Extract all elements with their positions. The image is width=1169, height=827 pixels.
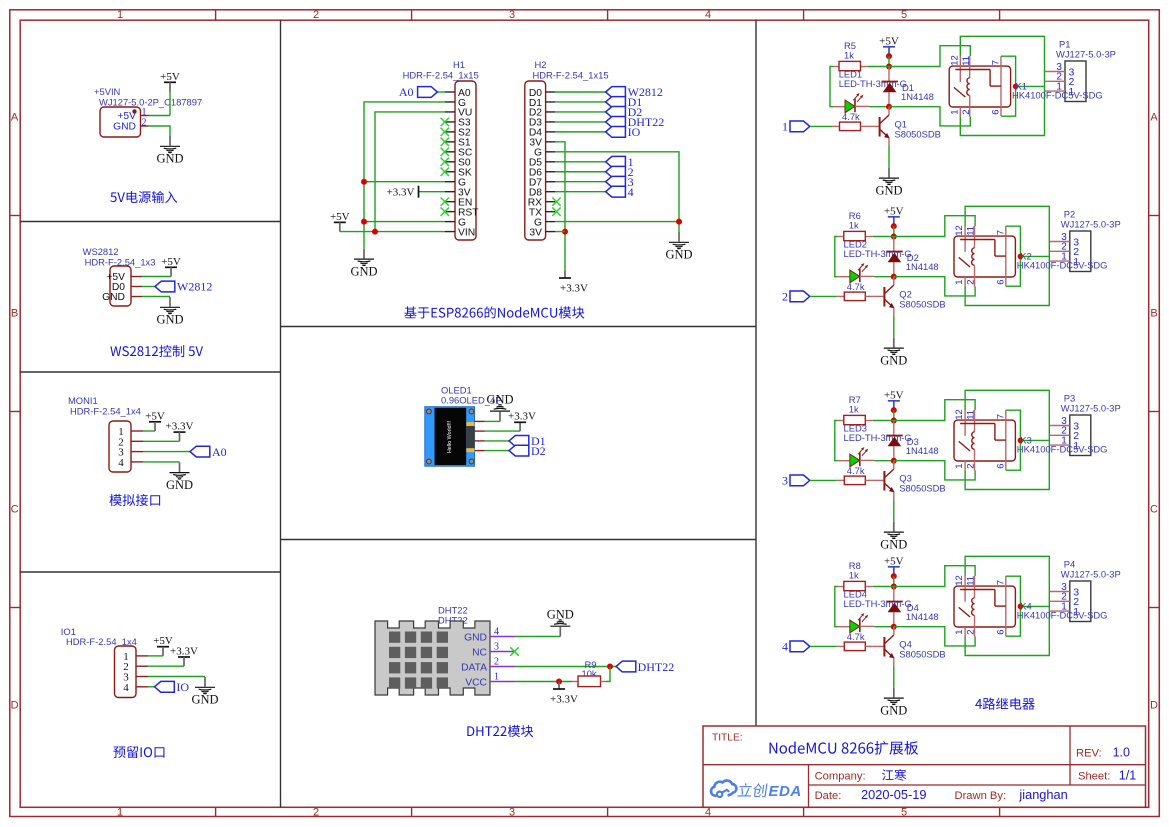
svg-text:Company:: Company: — [815, 771, 866, 783]
power +5V (relay 1) — [879, 35, 899, 56]
junction collector node — [891, 624, 897, 630]
net flag DHT22 — [606, 115, 665, 129]
ground GND (dht) — [547, 608, 574, 637]
junction relay common — [1018, 604, 1024, 610]
svg-text:1k: 1k — [849, 220, 859, 231]
svg-text:Date:: Date: — [815, 790, 842, 802]
relay pin numbers — [954, 575, 1006, 635]
wire pin2 to +3.3V — [143, 440, 180, 442]
wire +5V rail to relay coil — [889, 46, 970, 67]
pin 1 of +5VIN — [141, 107, 149, 118]
svg-text:7: 7 — [996, 580, 1007, 585]
section divider lines — [20, 20, 757, 808]
Sheet field — [1078, 769, 1136, 783]
svg-text:D: D — [1150, 700, 1158, 712]
wire D0 to flag — [555, 91, 606, 93]
svg-text:Hello World!!!: Hello World!!! — [447, 420, 453, 453]
svg-text:+3.3V: +3.3V — [560, 283, 588, 295]
wire GND pin — [142, 296, 170, 298]
diode D2 1N4148 — [886, 237, 903, 277]
ground GND (relay 4) — [880, 688, 907, 718]
title block TITLE — [712, 733, 743, 744]
caption NodeMCU module — [404, 306, 584, 318]
svg-text:WJ127-5.0-3P: WJ127-5.0-3P — [1061, 569, 1121, 580]
wire G pin14 to gnd rail — [364, 221, 445, 223]
wire input to base resistor — [810, 645, 837, 647]
svg-text:11: 11 — [961, 56, 972, 66]
junction G pin14 — [361, 219, 367, 225]
svg-text:+5V: +5V — [884, 389, 904, 401]
input net flag 4 — [782, 640, 810, 654]
svg-text:2: 2 — [313, 9, 319, 21]
relay K3 labels — [1017, 435, 1108, 455]
diode D4 labels — [906, 602, 939, 622]
wire +5V to rail — [888, 56, 890, 66]
transistor Q4 labels — [899, 639, 945, 660]
net flag IO — [606, 125, 641, 139]
svg-text:MONI1: MONI1 — [68, 395, 98, 406]
resistor R7 labels — [849, 394, 861, 415]
net flag A0 (H1) — [399, 85, 438, 99]
svg-text:HK4100F-DC5V-SDG: HK4100F-DC5V-SDG — [1017, 443, 1108, 454]
svg-text:GND: GND — [547, 608, 574, 622]
wire +5V to rail — [893, 410, 895, 420]
svg-text:DATA: DATA — [461, 662, 487, 673]
connector P2 labels — [1061, 209, 1121, 230]
relay pin numbers — [949, 55, 1001, 115]
wire D2 to flag — [555, 111, 606, 113]
wire 3V pin11 to +3.3V — [419, 191, 446, 193]
svg-text:Sheet:: Sheet: — [1078, 771, 1110, 783]
transistor Q1 S8050SDB — [880, 107, 890, 146]
power +5V (moni) — [145, 410, 165, 431]
power +3.3V (H1) — [387, 186, 419, 199]
svg-text:4: 4 — [705, 807, 711, 819]
wire LED to collector node — [874, 276, 894, 278]
transistor Q3 S8050SDB — [884, 461, 894, 500]
connector P1 WJ127-5.0-3P — [1045, 61, 1086, 102]
connector WS2812 labels — [83, 246, 156, 268]
wire pin2 to GND — [149, 126, 171, 136]
connector +5VIN WJ127-5.0-2P — [100, 107, 141, 137]
wire +5V rail to relay coil — [894, 400, 975, 421]
relay K2 labels — [1017, 251, 1108, 271]
svg-text:C: C — [11, 504, 19, 516]
svg-text:1: 1 — [782, 120, 788, 134]
svg-text:11: 11 — [966, 410, 977, 420]
svg-text:A: A — [1150, 112, 1158, 124]
svg-text:A0: A0 — [212, 445, 227, 459]
svg-text:HDR-F-2.54_1x4: HDR-F-2.54_1x4 — [70, 406, 141, 417]
no-connect S2 — [441, 128, 449, 136]
wire relay contact pins — [1006, 576, 1021, 636]
input net flag 3 — [782, 474, 810, 488]
net flag 4 — [606, 185, 634, 199]
svg-text:A: A — [11, 112, 19, 124]
svg-text:VIN: VIN — [458, 227, 475, 238]
connector +5VIN labels — [94, 86, 202, 108]
power +5V (relay 3) — [884, 389, 904, 410]
no-connect NC — [510, 647, 518, 655]
wire VIN pin15 to +5V port — [340, 231, 445, 233]
net flag 3 — [606, 175, 634, 189]
wire relay NC loop — [965, 206, 1049, 305]
connector P2 WJ127-5.0-3P — [1050, 231, 1091, 272]
resistor R6 labels — [849, 210, 861, 231]
wire G pin2 to gnd rail — [364, 102, 445, 249]
title text — [770, 741, 919, 755]
wire +5V to rail — [893, 576, 895, 586]
wire input to base resistor — [810, 295, 837, 297]
svg-text:GND: GND — [665, 248, 692, 262]
resistor R8 labels — [849, 560, 861, 581]
svg-text:3: 3 — [509, 807, 515, 819]
svg-text:11: 11 — [966, 576, 977, 586]
svg-text:S8050SDB: S8050SDB — [899, 648, 945, 659]
wire DHT VCC to R9 — [515, 681, 572, 683]
wire relay NC loop — [965, 556, 1049, 655]
svg-text:IO: IO — [628, 125, 641, 139]
module OLED1 0.96OLED_4P — [425, 407, 475, 467]
svg-text:3V: 3V — [529, 227, 542, 238]
wire R left to LED — [835, 237, 838, 277]
power +3.3V (io1) — [170, 646, 198, 667]
svg-text:GND: GND — [486, 393, 513, 407]
company name — [882, 769, 906, 781]
net flag 1 — [606, 155, 634, 169]
diode D1 1N4148 — [882, 67, 899, 107]
net flag D1 — [606, 95, 643, 109]
svg-text:HK4100F-DC5V-SDG: HK4100F-DC5V-SDG — [1012, 89, 1103, 100]
connector P3 WJ127-5.0-3P — [1050, 415, 1091, 456]
LED3 — [838, 447, 875, 467]
svg-text:S8050SDB: S8050SDB — [899, 298, 945, 309]
power +5V (io1) — [153, 635, 173, 656]
svg-text:1: 1 — [117, 9, 123, 21]
wire DHT DATA — [515, 666, 616, 668]
svg-text:C: C — [1150, 504, 1158, 516]
relay K1 HK4100F — [949, 56, 1010, 117]
connector IO1 labels — [61, 626, 137, 647]
wire R9 to DATA net — [606, 667, 610, 682]
net flag 2 — [606, 165, 634, 179]
net flag DHT22 — [616, 660, 674, 674]
svg-text:GND: GND — [113, 122, 136, 133]
wire LED to collector node — [870, 106, 890, 108]
svg-text:+5V: +5V — [884, 205, 904, 217]
wire D8 to flag — [555, 191, 606, 193]
svg-text:4: 4 — [705, 9, 711, 21]
no-connect S0 — [441, 158, 449, 166]
junction relay common — [1018, 438, 1024, 444]
diode D1 labels — [901, 82, 934, 102]
net flag D2 — [606, 105, 643, 119]
svg-text:+3.3V: +3.3V — [170, 646, 198, 658]
LED3 labels — [844, 423, 912, 444]
svg-text:GND: GND — [464, 632, 487, 643]
wire G pin10 to gnd rail — [364, 181, 445, 183]
svg-text:GND: GND — [880, 353, 907, 367]
svg-text:2: 2 — [782, 290, 788, 304]
ground GND (H2 right) — [665, 232, 692, 262]
svg-text:GND: GND — [350, 264, 377, 278]
module DHT22 labels — [438, 605, 468, 626]
wire common to P4 — [1020, 605, 1049, 607]
svg-text:GND: GND — [156, 313, 183, 327]
ground GND (input section) — [156, 136, 183, 166]
svg-text:HK4100F-DC5V-SDG: HK4100F-DC5V-SDG — [1017, 609, 1108, 620]
ground GND (H1 rail) — [350, 249, 377, 279]
wire 3V pin15 — [555, 231, 565, 233]
resistor R9 labels — [582, 659, 597, 679]
connector WS2812 HDR-F-2.54_1x3 — [102, 266, 131, 306]
svg-text:1: 1 — [494, 672, 499, 683]
wire pin1 to +5V — [143, 430, 155, 432]
power +5V (ws2812) — [161, 256, 181, 277]
svg-text:5: 5 — [901, 9, 907, 21]
ground GND (relay 3) — [880, 522, 907, 552]
svg-text:GND: GND — [875, 183, 902, 197]
caption DHT22 module — [467, 725, 533, 737]
relay K4 labels — [1017, 601, 1108, 621]
ground GND (relay 2) — [880, 338, 907, 368]
wire R left to LED — [830, 67, 833, 107]
svg-text:HDR-F-2.54_1x15: HDR-F-2.54_1x15 — [403, 69, 479, 80]
transistor Q1 labels — [895, 119, 941, 140]
base resistor 4.7k — [837, 642, 873, 651]
no-connect SK — [441, 168, 449, 176]
wire common to P2 — [1020, 255, 1049, 257]
svg-text:3: 3 — [782, 474, 788, 488]
connector P3 labels — [1061, 393, 1121, 414]
connector P4 WJ127-5.0-3P — [1050, 581, 1091, 622]
connector MONI1 labels — [68, 395, 141, 417]
svg-text:2: 2 — [313, 807, 319, 819]
svg-text:A0: A0 — [399, 85, 414, 99]
power +5V (input section) — [160, 71, 180, 92]
relay pin numbers — [954, 409, 1006, 469]
ground GND (ws2812) — [156, 297, 183, 327]
wire common to P3 — [1020, 439, 1049, 441]
wire relay contact pins — [1006, 410, 1021, 470]
LED2 labels — [844, 239, 912, 260]
wire base resistor to base — [868, 125, 880, 127]
svg-text:2: 2 — [966, 630, 977, 635]
svg-text:4: 4 — [123, 682, 129, 694]
net flag W2812 — [606, 85, 663, 99]
svg-text:HDR-F-2.54_1x15: HDR-F-2.54_1x15 — [533, 69, 609, 80]
net flag D1 (oled) — [509, 434, 546, 448]
net flag A0 — [190, 445, 227, 459]
pin stubs OLED1 — [475, 421, 485, 450]
relay K3 HK4100F — [954, 410, 1015, 471]
wire G pin14 to gnd — [555, 221, 679, 223]
svg-text:+5VIN: +5VIN — [94, 86, 120, 97]
svg-text:1N4148: 1N4148 — [906, 261, 939, 272]
svg-text:1/1: 1/1 — [1119, 769, 1136, 783]
svg-text:4.7k: 4.7k — [847, 465, 865, 476]
svg-text:+5V: +5V — [330, 211, 350, 223]
no-connect S1 — [441, 138, 449, 146]
wire emitter to GND — [893, 666, 895, 688]
wire LED to collector node — [874, 626, 894, 628]
svg-text:GND: GND — [880, 703, 907, 717]
svg-text:1k: 1k — [849, 570, 859, 581]
svg-text:LED-TH-3mm-G: LED-TH-3mm-G — [844, 598, 912, 609]
wire +5V rail to relay coil — [894, 216, 975, 237]
LED1 labels — [839, 69, 907, 90]
caption moni interface — [109, 494, 160, 506]
svg-text:1: 1 — [954, 280, 965, 285]
wire G pin7 to gnd — [555, 152, 679, 232]
power +5V (relay 2) — [884, 205, 904, 226]
relay K2 HK4100F — [954, 226, 1015, 287]
svg-text:HK4100F-DC5V-SDG: HK4100F-DC5V-SDG — [1017, 259, 1108, 270]
svg-text:GND: GND — [156, 152, 183, 166]
svg-text:4.7k: 4.7k — [842, 111, 860, 122]
connector MONI1 HDR-F-2.54_1x4 — [109, 421, 131, 472]
resistor R7 — [838, 415, 873, 424]
header H2 labels — [533, 59, 609, 80]
connector P4 labels — [1061, 559, 1121, 580]
svg-text:+5V: +5V — [145, 410, 165, 422]
svg-text:+5V: +5V — [161, 256, 181, 268]
diode D3 labels — [906, 436, 939, 456]
wire +5V to rail — [893, 226, 895, 236]
ground GND (io1) — [191, 677, 218, 707]
svg-text:REV:: REV: — [1076, 748, 1102, 760]
power +5V (relay 4) — [884, 555, 904, 576]
junction DATA — [607, 664, 613, 670]
svg-text:+5V: +5V — [879, 35, 899, 47]
resistor R9 — [572, 676, 606, 687]
EasyEDA logo — [711, 781, 802, 800]
svg-text:GND: GND — [102, 292, 125, 303]
caption 4-way relay — [975, 698, 1034, 710]
wire R right to +5V rail — [873, 420, 894, 422]
svg-text:GND: GND — [166, 478, 193, 492]
wire base resistor to base — [873, 295, 885, 297]
relay pin numbers — [954, 225, 1006, 285]
no-connect RX — [552, 197, 560, 205]
pin stubs WS2812 — [131, 277, 142, 297]
wire D6 to flag — [555, 171, 606, 173]
wire +5V pin — [142, 276, 171, 278]
svg-text:WJ127-5.0-3P: WJ127-5.0-3P — [1061, 403, 1121, 414]
junction collector node — [891, 274, 897, 280]
svg-text:4: 4 — [782, 640, 788, 654]
wire emitter to GND — [893, 500, 895, 522]
wire pin3 to A0 flag — [143, 451, 190, 453]
wire collector node to relay coil 2 — [894, 461, 975, 480]
wire up to +5V port — [169, 92, 171, 116]
header H2 HDR-F-2.54_1x15 — [525, 81, 546, 240]
svg-text:7: 7 — [996, 414, 1007, 419]
diode D2 labels — [906, 252, 939, 272]
Date field — [815, 787, 1068, 802]
base resistor 4.7k — [837, 476, 873, 485]
power +3.3V (dht) — [550, 682, 578, 706]
svg-text:WS2812: WS2812 — [83, 246, 119, 257]
LED4 labels — [844, 589, 912, 610]
wire R left to LED — [835, 421, 838, 461]
svg-text:2: 2 — [494, 657, 499, 668]
svg-text:1k: 1k — [844, 50, 854, 61]
svg-text:+3.3V: +3.3V — [550, 694, 578, 706]
svg-text:2020-05-19: 2020-05-19 — [861, 787, 926, 802]
wire base resistor to base — [873, 645, 885, 647]
diode D3 1N4148 — [886, 421, 903, 461]
pin stubs IO1 — [136, 656, 148, 687]
svg-text:3: 3 — [494, 642, 499, 653]
svg-text:11: 11 — [966, 226, 977, 236]
header H1 labels — [403, 59, 479, 80]
junction relay common — [1013, 84, 1019, 90]
DHT22 pin names — [461, 632, 487, 688]
svg-text:7: 7 — [996, 230, 1007, 235]
svg-text:VCC: VCC — [465, 677, 487, 688]
svg-text:6: 6 — [996, 630, 1007, 635]
junction +5V top — [891, 573, 897, 579]
wire relay contact pins — [1001, 56, 1016, 116]
junction VIN / VU rail — [372, 229, 378, 235]
wire relay NC loop — [965, 390, 1049, 489]
no-connect RST — [441, 207, 449, 215]
svg-text:LED-TH-3mm-G: LED-TH-3mm-G — [844, 248, 912, 259]
svg-text:2: 2 — [961, 110, 972, 115]
wire 3V pin6 down to 3.3V rail — [555, 142, 565, 271]
svg-text:+5V: +5V — [160, 71, 180, 83]
svg-text:4: 4 — [118, 457, 124, 469]
wire pin1 to +5V — [149, 115, 171, 117]
wire D3 to flag — [555, 121, 606, 123]
no-connect S3 — [441, 118, 449, 126]
wire R right to +5V rail — [868, 66, 889, 68]
net flag W2812 — [155, 280, 212, 294]
svg-text:6: 6 — [991, 110, 1002, 115]
caption 5V dianyuan input — [110, 191, 177, 203]
diode D4 1N4148 — [886, 587, 903, 627]
transistor Q4 S8050SDB — [884, 627, 894, 666]
svg-text:3: 3 — [509, 9, 515, 21]
wire relay contact pins — [1006, 226, 1021, 286]
relay K4 HK4100F — [954, 576, 1015, 637]
wire emitter to GND — [893, 316, 895, 338]
svg-text:1: 1 — [949, 110, 960, 115]
svg-text:4.7k: 4.7k — [847, 281, 865, 292]
svg-text:1N4148: 1N4148 — [901, 91, 934, 102]
svg-text:LED-TH-3mm-G: LED-TH-3mm-G — [844, 432, 912, 443]
svg-text:S8050SDB: S8050SDB — [895, 128, 941, 139]
pin stubs H2 — [546, 92, 555, 232]
no-connect EN — [441, 197, 449, 205]
transistor Q2 labels — [899, 289, 945, 310]
svg-text:TITLE:: TITLE: — [712, 733, 743, 744]
transistor Q2 S8050SDB — [884, 277, 894, 316]
svg-text:1: 1 — [954, 464, 965, 469]
svg-text:4.7k: 4.7k — [847, 631, 865, 642]
wire input to base resistor — [810, 479, 837, 481]
wire OLED VCC — [485, 430, 521, 432]
power +3.3V (oled) — [508, 411, 536, 432]
wire pin3 to GND — [148, 676, 205, 678]
svg-text:12: 12 — [954, 409, 965, 420]
svg-text:4: 4 — [494, 627, 499, 638]
wire +5V rail to relay coil — [894, 566, 975, 587]
wire emitter to GND — [888, 146, 890, 168]
svg-text:1N4148: 1N4148 — [906, 445, 939, 456]
wire DHT GND — [515, 636, 560, 638]
